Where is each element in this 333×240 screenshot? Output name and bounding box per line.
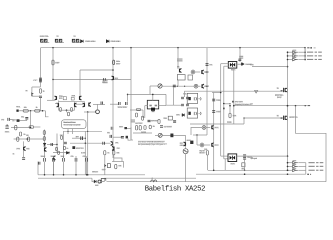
wire K rail mid2: [233, 67, 235, 124]
label input R3: [36, 107, 38, 109]
capacitor C37 col: [110, 135, 112, 138]
wire vplus link: [252, 66, 288, 68]
wire C27 drop: [53, 162, 55, 175]
diode D3 led: [182, 114, 185, 117]
svg-text:10u: 10u: [107, 132, 110, 134]
mosfet Q13 upper: [284, 88, 287, 92]
wire Q11 up: [97, 104, 99, 110]
resistor R36 vas: [58, 151, 60, 154]
node J20: [287, 105, 289, 107]
label OUT bot 3: [309, 170, 324, 171]
wire C27 top stub: [53, 156, 55, 158]
svg-text:Thermally coupled: Thermally coupled: [63, 124, 80, 127]
node J16: [287, 105, 289, 107]
resistor R26 col: [206, 151, 208, 156]
capacitor C31 vas: [51, 143, 53, 146]
transistor Q12 driver: [184, 142, 186, 146]
label out net: [250, 103, 253, 106]
connector OUT top 1: [293, 51, 298, 54]
label Q17: [214, 127, 219, 130]
resistor R11 emitter: [71, 108, 73, 112]
wire out link bot 1: [298, 162, 306, 164]
label C5: [12, 120, 14, 122]
svg-text:1k: 1k: [107, 153, 109, 155]
label C23: [216, 111, 221, 114]
wire fb to ltp: [34, 126, 41, 128]
wire box leg2: [72, 129, 74, 134]
node J6: [304, 47, 306, 49]
component dark small: [190, 141, 193, 144]
resistor R20: [149, 125, 151, 129]
label R28: [107, 152, 109, 154]
node vasB: [56, 144, 57, 145]
node J12: [66, 109, 68, 111]
label K2 right: [247, 156, 253, 159]
wire rail x113 mid: [112, 125, 114, 158]
wire K2 drop: [244, 159, 246, 170]
diode D5 offset: [104, 164, 106, 167]
label C8 value: [5, 131, 10, 134]
svg-text:10R: 10R: [95, 185, 99, 187]
fuse F3 block: [72, 39, 81, 42]
label R20: [153, 126, 156, 129]
svg-text:2n2: 2n2: [1, 119, 4, 121]
label K2: [231, 163, 236, 165]
trimmer VR2: [158, 133, 162, 137]
ground sym upper: [255, 91, 258, 94]
wire offset top: [112, 161, 124, 163]
wire rail A down: [40, 48, 42, 87]
label C11 value: [118, 106, 129, 109]
svg-text:100n: 100n: [216, 100, 221, 102]
wire c7 drop: [26, 119, 28, 121]
wire drv bias row: [72, 137, 85, 139]
label Q14 SR: [289, 116, 298, 119]
label Q22: [117, 148, 121, 150]
node C28 bus: [63, 174, 65, 176]
svg-text:for (masked) (Vgs~4V) per t: for (masked) (Vgs~4V) per t: [138, 143, 165, 146]
label C20: [164, 126, 172, 129]
wire psu left v: [37, 162, 39, 175]
node J32: [213, 170, 215, 172]
wire Q14 drain: [287, 116, 289, 120]
svg-text:Babelfish XA252: Babelfish XA252: [145, 185, 205, 193]
svg-text:(+) 100u: (+) 100u: [164, 126, 172, 128]
node out bot 3: [287, 170, 289, 172]
annotation bias line1: [138, 140, 165, 143]
svg-text:220u: 220u: [5, 132, 10, 134]
capacitor C17: [186, 97, 189, 99]
wire ltp bases: [76, 103, 83, 105]
wire U1 left: [145, 105, 148, 107]
resistor R37 sq: [72, 146, 75, 149]
node vr1 a: [177, 86, 178, 87]
label C40: [209, 64, 212, 66]
diode D2 power flag: [106, 40, 109, 43]
wire relay drop: [224, 103, 230, 105]
wire out link top 2: [298, 55, 305, 57]
label Q18: [214, 144, 219, 147]
resistor R13 drv: [136, 109, 140, 111]
label F1 value: [40, 35, 49, 38]
node J33: [244, 173, 246, 175]
wire C30 drop: [86, 162, 88, 175]
wire gnd detour: [92, 178, 94, 181]
label conn bot 1: [293, 160, 297, 161]
resistor R19: [144, 126, 146, 130]
label Q6 left: [16, 148, 21, 151]
wire C26 top stub: [44, 156, 46, 158]
node J3: [130, 47, 132, 49]
wire psu bus right: [196, 173, 306, 175]
wire box leg1: [67, 129, 69, 134]
svg-text:RLY2: RLY2: [231, 164, 236, 166]
fuse F1 mains block: [41, 39, 50, 42]
node J25: [220, 92, 222, 94]
wire vas link: [93, 103, 105, 105]
wire Q7 stub up: [58, 101, 60, 104]
wire Q13 drain: [287, 89, 289, 93]
relay K2: [228, 154, 237, 162]
label Q21: [115, 142, 119, 144]
label IN+: [26, 90, 29, 92]
wire emitters: [59, 109, 75, 111]
svg-text:PWR +RAIL: PWR +RAIL: [85, 40, 97, 43]
wire collector loads row: [59, 101, 85, 103]
label R35: [66, 148, 68, 150]
wire coil row: [193, 134, 207, 136]
label R34: [60, 135, 63, 137]
transistor Q21 drv: [111, 141, 113, 145]
node out top 2: [287, 55, 289, 57]
capacitor C39 dark: [126, 136, 128, 139]
node J2: [112, 47, 114, 49]
diode D1 power flag: [81, 40, 84, 43]
label C35: [119, 126, 123, 128]
wire feedback row: [11, 127, 31, 129]
node J4: [177, 47, 179, 49]
node J14: [127, 94, 129, 96]
svg-text:2SA: 2SA: [71, 95, 76, 98]
svg-text:47u: 47u: [71, 156, 74, 158]
capacitor C40 rail F: [206, 64, 209, 66]
node ltp lower b: [87, 131, 88, 132]
transistor Q15: [202, 70, 204, 74]
svg-text:RLY1: RLY1: [231, 70, 236, 72]
svg-text:100n: 100n: [119, 126, 123, 128]
wire output line: [234, 105, 307, 107]
wire k-rail link: [212, 92, 221, 94]
wire rail H down: [304, 48, 306, 61]
label box lower: [241, 168, 244, 170]
capacitor C20: [160, 126, 163, 128]
capacitor C8 polar: [5, 124, 8, 128]
wire out stub top 2: [288, 55, 293, 57]
resistor R10 emitter: [60, 108, 62, 112]
wire q20 down: [53, 160, 55, 175]
wire zobel v: [229, 106, 231, 114]
transistor Q8 ltp: [75, 103, 77, 107]
connector OUT bot 3: [293, 169, 298, 172]
wire C28 top stub: [63, 156, 65, 158]
resistor R33 colB: [56, 147, 58, 150]
svg-text:10k: 10k: [204, 149, 207, 151]
wire psu bus: [38, 174, 145, 176]
node J7: [112, 69, 114, 71]
terminal RCA input: [16, 110, 21, 112]
terminal chassis: [98, 178, 106, 183]
label R23 1k: [277, 87, 280, 90]
label conn top 2: [293, 53, 297, 54]
label R26: [204, 149, 207, 151]
capacitor C15: [173, 121, 176, 122]
svg-text:100n 400V: 100n 400V: [118, 107, 129, 109]
capacitor C18: [181, 104, 184, 106]
wire feed LTP: [80, 69, 113, 71]
svg-text:1k: 1k: [13, 154, 15, 156]
wire C26 drop: [44, 162, 46, 175]
label OUT top 1: [307, 52, 322, 53]
wire K2 below drop: [224, 159, 226, 171]
label Q2 text1: [71, 95, 76, 98]
node ltp lower a: [67, 131, 68, 132]
capacitor C10 comp: [101, 102, 103, 105]
svg-text:0R22 5W: 0R22 5W: [289, 117, 298, 119]
node J29: [244, 170, 246, 172]
wire mirror row: [84, 111, 97, 113]
capacitor C36 dark: [124, 127, 127, 129]
bottom end marks: [307, 174, 311, 175]
resistor R5 fb: [15, 125, 17, 130]
node out top r 2: [304, 55, 306, 57]
connector OUT top 2: [293, 55, 298, 58]
capacitor C13 bias: [173, 85, 176, 87]
node J5: [239, 47, 241, 49]
trimmer VR1: [158, 84, 162, 88]
wire R29 v: [113, 155, 115, 162]
node J1: [52, 47, 54, 49]
transistor Q10 ltp: [89, 102, 91, 106]
capacitor C2 rail A: [39, 81, 42, 82]
wire Q6 down: [23, 151, 25, 157]
wire col corner2: [114, 158, 122, 162]
wire rail C down: [112, 48, 114, 125]
wire row link: [133, 132, 152, 134]
wire L3 left: [191, 128, 202, 136]
svg-text:1N4001: 1N4001: [245, 64, 252, 66]
connector OUT bot 2: [293, 165, 298, 168]
wire in down: [40, 98, 42, 111]
transistor Q17: [212, 125, 214, 129]
svg-text:22R 3W: 22R 3W: [151, 121, 158, 123]
node J27: [233, 105, 235, 107]
connector XLR1 pin sym: [199, 97, 201, 100]
capacitor C14: [148, 120, 151, 121]
svg-text:(bipolar) 10 ohm: (bipolar) 10 ohm: [235, 104, 249, 106]
capacitor C7 10p: [25, 117, 28, 119]
wire rail D down: [130, 48, 132, 140]
wire rail F down: [206, 48, 208, 135]
node C26 bus: [44, 174, 46, 176]
wire rail I down: [79, 70, 81, 96]
wire gnd lift bus2: [104, 177, 196, 179]
wire VR1 up: [149, 86, 151, 94]
wire C12 up: [127, 94, 129, 101]
node q3 base: [52, 79, 53, 80]
wire C29 drop: [75, 162, 77, 175]
transistor Q22 col: [112, 146, 114, 150]
capacitor C16: [181, 97, 184, 99]
wire vas col B: [56, 134, 58, 153]
resistor R40 gate: [281, 117, 283, 119]
capacitor C3 rail C: [113, 60, 115, 65]
box small driver pad: [168, 116, 172, 120]
lamp L1: [191, 70, 195, 74]
connector XLR2 box: [187, 108, 197, 118]
wire VR2 left: [155, 134, 158, 136]
svg-text:100n: 100n: [216, 111, 221, 113]
node out top 1: [287, 51, 289, 53]
trimmer VR3 offset: [107, 164, 110, 168]
wire drv mid row: [70, 142, 111, 144]
capacitor C42 corner: [39, 162, 40, 165]
wire out vert right: [304, 48, 306, 60]
capacitor C41 in: [39, 96, 42, 97]
wire in+ vert: [31, 87, 33, 96]
resistor R18: [139, 126, 141, 130]
label OUT bot 1: [309, 162, 324, 163]
capacitor C29 psu: [75, 158, 77, 162]
wire C30 top stub: [86, 156, 88, 158]
svg-text:10k: 10k: [24, 107, 27, 109]
label OUT top 3: [307, 59, 322, 60]
off-page arrow top right: [307, 47, 315, 48]
node J8b: [42, 110, 44, 112]
label K1: [231, 69, 236, 71]
wire vas top: [128, 93, 166, 95]
connector OUT bot 1: [293, 161, 298, 164]
resistor R21 dark: [170, 134, 173, 138]
resistor R9: [28, 137, 30, 141]
capacitor C26 psu: [44, 158, 46, 162]
resistor R32 colA: [43, 137, 45, 141]
diode D8 vas: [66, 151, 69, 154]
mosfet Q14 lower: [284, 116, 287, 120]
wire out stub bot 3: [288, 169, 293, 171]
label conn bot 3: [293, 168, 297, 169]
wire L2 link: [198, 85, 201, 87]
svg-text:BD139: BD139: [199, 153, 205, 155]
wire out link bot 2: [298, 165, 306, 167]
svg-text:4R7: 4R7: [76, 136, 79, 138]
box Q1 pad: [63, 97, 66, 100]
svg-text:6L30 T2A: 6L30 T2A: [40, 35, 49, 38]
wire Q3 collector: [53, 79, 131, 81]
label Q13 line1: [275, 94, 284, 97]
wire ltp lower link: [64, 130, 103, 132]
wire earth line: [107, 181, 327, 183]
svg-text:1k: 1k: [43, 91, 45, 93]
lamp L3: [202, 126, 206, 130]
svg-text:10k: 10k: [118, 165, 121, 167]
resistor R30 lift: [98, 180, 101, 183]
transistor Q11 mirror: [96, 110, 100, 114]
label D4: [245, 64, 252, 66]
wire col link: [113, 136, 122, 138]
wire offset v1: [104, 155, 106, 174]
label Q6 right: [26, 148, 30, 151]
wire c36 link: [127, 127, 131, 129]
label bias net: [177, 59, 183, 62]
label conn top 1: [293, 50, 297, 51]
capacitor C27 psu: [53, 158, 55, 162]
wire output loop right: [296, 106, 327, 182]
label OUT bot 2: [309, 166, 324, 167]
label coil txt: [199, 150, 205, 152]
transistor Q2 source: [80, 96, 82, 100]
fuse F2 block: [55, 39, 64, 42]
svg-text:33k: 33k: [116, 153, 119, 155]
node J11: [26, 138, 28, 140]
node drv rail: [85, 143, 86, 144]
wire rail E down: [177, 48, 179, 69]
wire L1 link: [195, 71, 200, 73]
arrow mark mid: [232, 101, 234, 103]
node J8: [30, 110, 32, 112]
wire drv row: [130, 109, 143, 111]
wire in low link: [32, 95, 41, 97]
capacitor C28 psu: [63, 158, 65, 162]
capacitor C1 rail A: [39, 78, 42, 79]
capacitor C12 rail: [126, 102, 128, 105]
node L1 rail: [206, 71, 207, 72]
wire lower mid bus: [190, 123, 244, 125]
wire Q9 stub up: [84, 102, 86, 104]
label R27: [118, 165, 121, 167]
wire L4 link: [204, 144, 210, 146]
node out top r 3: [304, 59, 306, 61]
wire L1 rail: [204, 71, 207, 73]
wire Q7 stub dn: [58, 107, 60, 110]
label R24b: [227, 121, 232, 124]
resistor R2: [23, 110, 28, 113]
thermal pad box Q5: [177, 75, 185, 80]
label R22b: [180, 145, 185, 147]
box Q2 pad: [71, 97, 74, 100]
wire gate lower: [244, 117, 282, 119]
resistor R3: [35, 110, 40, 113]
fuse F4 circled: [183, 149, 188, 154]
svg-text:10p: 10p: [21, 117, 24, 119]
label R29: [116, 152, 119, 154]
label conn bot 2: [293, 164, 297, 165]
label C27: [51, 156, 57, 158]
node J13: [87, 111, 89, 113]
capacitor C32 colC: [64, 142, 67, 144]
label zobel note1: [235, 101, 244, 103]
node J34: [287, 173, 289, 175]
svg-text:ZTX: ZTX: [16, 148, 21, 150]
svg-text:10mF: 10mF: [41, 156, 47, 158]
capacitor C30 psu: [86, 158, 88, 162]
resistor R24 zobel: [229, 113, 231, 118]
transistor Q18: [212, 143, 214, 147]
wire Q12 v: [185, 135, 187, 142]
label C3 value: [116, 61, 120, 63]
label K1 pins: [239, 56, 243, 59]
label drv bias: [76, 136, 79, 138]
label R7 value: [23, 134, 26, 137]
